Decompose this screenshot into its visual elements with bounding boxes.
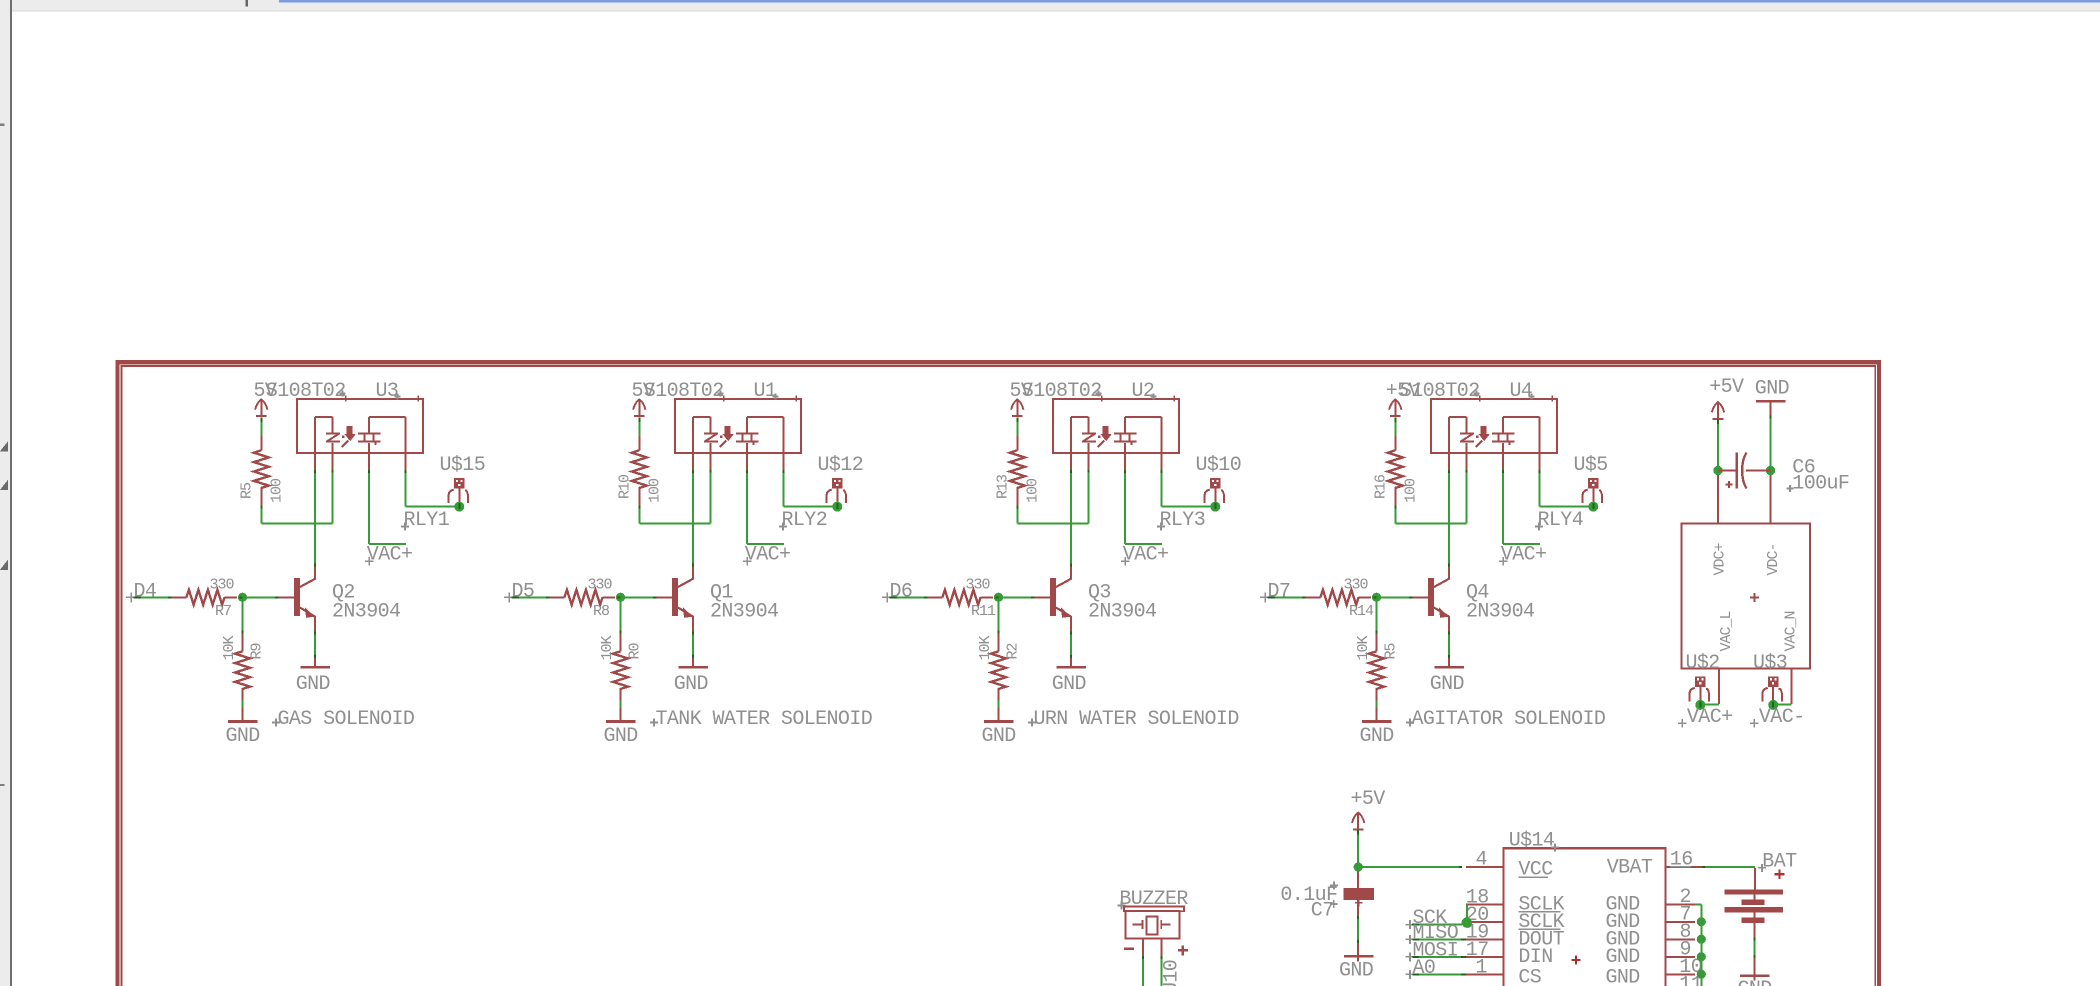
svg-text:10K: 10K [977,635,994,660]
svg-text:AGITATOR SOLENOID: AGITATOR SOLENOID [1412,708,1606,731]
ground symbol under R2 [982,722,1016,749]
wire battery to ground [1754,938,1756,981]
svg-text:U$15: U$15 [440,454,486,477]
wire junction to R2 [998,601,1000,634]
wire SSR pin4 to U$5 [1540,470,1590,506]
net label VAC+ 2 [743,544,790,567]
wire SCK to pin 20 [1412,904,1467,924]
wire junction to base Q3 [999,596,1035,598]
value 2N3904 of Q4 [1466,601,1534,624]
wire R13 to SSR pin2 [1017,469,1088,524]
value 2N3904 of Q2 [332,601,400,624]
transistor Q4 2N3904 [1413,566,1450,632]
pin 1 CS [1466,957,1542,986]
svg-text:D6: D6 [890,581,913,604]
svg-text:VAC_N: VAC_N [1783,611,1800,651]
gutter dash icon fragment 1 [0,124,5,126]
svg-text:R7: R7 [215,603,231,620]
wire collector Q3 to SSR pin1 [1070,470,1072,567]
junction +5V C7 VCC [1354,862,1363,871]
wire buzzer plus to bottom [1161,956,1163,986]
svg-text:R8: R8 [593,603,610,620]
wire emitter Q4 to ground [1448,632,1450,667]
svg-text:VAC_L: VAC_L [1718,610,1735,651]
svg-text:4: 4 [1476,849,1487,872]
gutter triangle icon fragment 3 [0,560,8,570]
caption AGITATOR SOLENOID [1406,708,1605,731]
svg-text:S108T02: S108T02 [1022,380,1102,403]
svg-text:C7: C7 [1311,900,1334,923]
name U$3 [1753,652,1787,675]
resistor R11 330 [928,577,997,621]
wire +5V to R5 [260,417,262,437]
svg-text:100: 100 [1402,478,1419,503]
name U4 [1510,380,1535,403]
wire R10 to SSR pin2 [639,469,710,524]
resistor R5 10K [1355,634,1400,701]
wire +5V to R10 [638,417,640,437]
net label RLY3 [1157,509,1205,532]
top toolbar strip [12,0,2100,12]
pin 11 number [1679,973,1702,986]
buzzer BZ1 [1118,888,1189,986]
svg-text:R5: R5 [239,482,256,499]
wire VAC_N pin to connector U$3 [1778,669,1792,705]
svg-text:TANK WATER SOLENOID: TANK WATER SOLENOID [656,708,873,731]
svg-text:GND: GND [1738,978,1772,986]
pin 17 DIN [1466,939,1553,969]
net label RLY1 [401,509,450,532]
supply +5V block 3 [1010,380,1033,417]
svg-text:BUZZER: BUZZER [1119,888,1188,911]
pin label VDC- [1765,543,1782,575]
wire collector Q4 to SSR pin1 [1448,470,1450,567]
wire GND to C6 junction [1770,416,1772,471]
pin 20 SCLK [1466,904,1565,934]
name U3 [376,380,401,403]
pin label VAC_L [1718,610,1735,651]
svg-text:GND: GND [1052,673,1086,696]
ground symbol under R5 [1360,722,1394,749]
value 2N3904 of Q1 [710,601,778,624]
junction pin7 bus [1697,917,1706,926]
svg-text:VAC+: VAC+ [1501,544,1547,567]
wire junction to U$14 VCC pin [1358,866,1462,868]
svg-text:RLY2: RLY2 [782,509,828,532]
wire junction to R5 [1376,601,1378,634]
svg-text:100: 100 [268,478,285,503]
junction pin8 bus [1697,935,1706,944]
connector U$5 [1574,454,1608,512]
svg-text:D4: D4 [134,581,157,604]
caption URN WATER SOLENOID [1028,708,1239,731]
wire collector Q2 to SSR pin1 [314,470,316,567]
wire D4 to R7 [134,596,172,598]
wire VAC_L pin to connector U$2 [1705,669,1719,705]
svg-text:S108T02: S108T02 [1400,380,1480,403]
ground symbol under R9 [226,722,260,749]
svg-text:100: 100 [646,478,663,503]
pin 19 DOUT [1466,922,1565,952]
wire MOSI to pin 17 [1412,956,1466,958]
supply +5V bottom [1351,788,1386,830]
wire GND bus right of U$14 [1695,904,1701,986]
name Q2 [332,582,355,605]
pin 7 GND [1606,903,1696,934]
pin 16 VBAT [1607,849,1702,880]
svg-text:R16: R16 [1373,474,1390,499]
transistor Q2 2N3904 [279,566,316,632]
wire SSR pin3 to VAC+ label 3 [1125,470,1162,544]
svg-text:R9: R9 [249,643,266,659]
transistor Q1 2N3904 [657,566,694,632]
junction GND C6 [1766,466,1775,475]
svg-text:GND: GND [674,673,708,696]
svg-text:GND: GND [1339,959,1373,982]
wire junction to base Q2 [243,596,279,598]
schematic sheet frame [118,362,1880,986]
connector U$3 symbol [1763,676,1782,710]
resistor R0 10K [599,634,644,701]
svg-text:S108T02: S108T02 [644,380,724,403]
capacitor C7 0.1uF [1280,871,1374,923]
svg-text:100: 100 [1024,478,1041,503]
wire junction to R9 [242,601,244,634]
wire SSR pin3 to VAC+ label 2 [747,470,784,544]
junction base node Q4 [1372,593,1381,602]
svg-text:16: 16 [1670,849,1693,872]
svg-text:+5V: +5V [1709,376,1744,399]
name U1 [754,380,779,403]
wire A0 to pin 1 [1412,973,1466,975]
svg-text:D7: D7 [1268,581,1291,604]
wire emitter Q3 to ground [1070,632,1072,667]
gutter triangle icon fragment 2 [0,480,8,490]
name U$14 [1509,830,1559,853]
solid-state relay U1 S108T02 [675,396,801,470]
svg-text:R10: R10 [617,474,634,499]
svg-text:U4: U4 [1510,380,1533,403]
wire R0 to ground [620,701,622,721]
wire C6 junctions to rectifier module [1718,475,1771,524]
solid-state relay U4 S108T02 [1431,396,1557,470]
net label MOSI [1406,939,1459,962]
pin 10 GND [1606,956,1703,986]
ground symbol right section [1755,378,1789,416]
svg-text:R13: R13 [995,474,1012,499]
svg-text:R5: R5 [1383,642,1400,659]
name Q4 [1466,582,1489,605]
net label D5 [504,581,534,604]
wire R9 to ground [242,701,244,721]
caption GAS SOLENOID [272,708,414,731]
svg-text:URN WATER SOLENOID: URN WATER SOLENOID [1034,708,1239,731]
svg-text:GND: GND [226,725,260,748]
left toolbar gutter [0,0,10,986]
junction pin9 bus [1697,952,1706,961]
pin 8 GND [1606,921,1696,952]
resistor R7 330 [172,577,238,621]
svg-text:RLY4: RLY4 [1538,509,1584,532]
resistor R5 100 [239,436,286,507]
wire D5 to R8 [512,596,550,598]
net label VAC+ 4 [1499,544,1546,567]
svg-text:VAC-: VAC- [1759,706,1805,729]
svg-text:S108T02: S108T02 [266,380,346,403]
pin label VAC_N [1783,611,1800,651]
connector U$10 [1196,454,1242,512]
value 2N3904 of Q3 [1088,601,1156,624]
wire emitter Q1 to ground [692,632,694,667]
pin 9 GND [1606,938,1696,969]
svg-text:VAC+: VAC+ [367,544,413,567]
wire VBAT to battery [1702,866,1755,868]
ground symbol under C7 [1339,955,1374,982]
svg-text:U$12: U$12 [818,454,864,477]
svg-text:1: 1 [1476,957,1488,980]
junction base node Q1 [616,593,625,602]
value S108T02 of U4 [1400,380,1480,403]
svg-text:R2: R2 [1005,643,1022,659]
wire D7 to R14 [1268,596,1306,598]
svg-text:VAC+: VAC+ [1687,706,1733,729]
svg-text:U1: U1 [754,380,777,403]
wire +5V to R13 [1016,417,1018,437]
svg-text:330: 330 [1344,577,1369,594]
ground symbol at Q2 emitter [296,667,330,696]
svg-text:U10: U10 [1160,960,1183,986]
pin 4 VCC [1466,849,1553,882]
solid-state relay U2 S108T02 [1053,396,1179,470]
top toolbar tick [246,0,248,7]
name U$2 [1686,652,1720,675]
svg-text:U$2: U$2 [1686,652,1720,675]
wire SSR pin3 to VAC+ label 1 [369,470,406,544]
capacitor C6 100uF [1718,453,1849,496]
svg-text:U2: U2 [1132,380,1155,403]
svg-text:A0: A0 [1413,957,1436,980]
wire collector Q1 to SSR pin1 [692,470,694,567]
svg-text:RLY1: RLY1 [404,509,450,532]
wire junction to base Q4 [1377,596,1413,598]
resistor R16 100 [1373,436,1420,507]
wire +5V to C6 junction [1717,420,1719,471]
svg-text:GND: GND [1430,673,1464,696]
svg-text:2N3904: 2N3904 [1466,601,1534,624]
wire R5 to SSR pin2 [261,469,332,524]
ground symbol under R0 [604,722,638,749]
net label D4 [126,581,156,604]
net label VAC+ 1 [365,544,412,567]
svg-text:R14: R14 [1349,603,1374,620]
wire R2 to ground [998,701,1000,721]
ground symbol at Q3 emitter [1052,667,1086,696]
caption TANK WATER SOLENOID [650,708,872,731]
name Q3 [1088,582,1111,605]
ground symbol at Q1 emitter [674,667,708,696]
svg-text:U3: U3 [376,380,399,403]
battery BAT [1724,850,1797,937]
wire MISO to pin 19 [1412,938,1466,940]
pin 18 SCLK [1466,887,1565,917]
svg-text:330: 330 [588,577,613,594]
net label VAC- right [1750,706,1804,729]
net label VAC+ 3 [1121,544,1168,567]
value S108T02 of U3 [266,380,346,403]
svg-text:GND: GND [1606,966,1640,986]
resistor R8 330 [550,577,616,621]
net label SCK [1406,907,1448,930]
name Q1 [710,582,733,605]
svg-text:GAS SOLENOID: GAS SOLENOID [278,708,415,731]
pin label VDC+ [1712,542,1729,575]
svg-text:U$10: U$10 [1196,454,1242,477]
junction SCK pin20 [1462,917,1472,927]
rectifier module U$2/U$3 box [1682,524,1811,669]
svg-text:GND: GND [1755,378,1789,401]
svg-text:R11: R11 [971,603,996,620]
net label RLY4 [1535,509,1583,532]
svg-text:100uF: 100uF [1792,473,1849,496]
svg-text:GND: GND [604,725,638,748]
top blue selection bar [279,0,2100,3]
wire D6 to R11 [890,596,928,598]
resistor R14 330 [1306,577,1375,621]
net label MISO [1406,922,1459,945]
junction pin10 bus [1697,970,1706,979]
svg-text:GND: GND [1360,725,1394,748]
IC U$14 box [1504,848,1666,986]
wire junction to base Q1 [621,596,657,598]
svg-text:U$3: U$3 [1753,652,1787,675]
svg-text:R0: R0 [627,642,644,659]
svg-text:330: 330 [966,577,991,594]
resistor R9 10K [221,634,266,701]
gutter dash icon fragment 2 [0,784,5,786]
svg-text:VAC+: VAC+ [1123,544,1169,567]
wire C7 to ground [1357,916,1359,955]
value S108T02 of U2 [1022,380,1102,403]
svg-text:10K: 10K [1355,635,1372,660]
svg-text:U$5: U$5 [1574,454,1608,477]
svg-text:2N3904: 2N3904 [1088,601,1156,624]
svg-text:330: 330 [210,577,235,594]
wire R5 to ground [1376,701,1378,721]
wire SSR pin3 to VAC+ label 4 [1503,470,1540,544]
junction +5V C6 [1713,466,1722,475]
supply +5V block 2 [632,380,655,417]
wire emitter Q2 to ground [314,632,316,667]
junction base node Q2 [238,593,247,602]
svg-text:10K: 10K [599,635,616,660]
svg-text:10K: 10K [221,635,238,660]
connector U$2 symbol [1690,676,1709,710]
svg-text:2N3904: 2N3904 [710,601,778,624]
wire SSR pin4 to U$15 [406,470,456,506]
net label D7 [1260,581,1290,604]
wire junction to R0 [620,601,622,634]
gutter triangle icon fragment 1 [0,441,8,451]
connector U$12 [818,454,864,512]
supply +5V right section [1709,376,1744,419]
svg-text:VBAT: VBAT [1607,857,1653,880]
svg-text:VCC: VCC [1518,859,1553,882]
wire SSR pin4 to U$12 [784,470,834,506]
ground symbol at Q4 emitter [1430,667,1464,696]
svg-text:2N3904: 2N3904 [332,601,400,624]
wire +5V bottom to junction [1357,830,1359,867]
resistor R10 100 [617,436,664,507]
net label VAC+ right [1678,706,1732,729]
solid-state relay U3 S108T02 [297,396,423,470]
wire R16 to SSR pin2 [1395,469,1466,524]
junction base node Q3 [994,593,1003,602]
net label D6 [882,581,912,604]
svg-text:VAC+: VAC+ [745,544,791,567]
svg-text:RLY3: RLY3 [1160,509,1206,532]
wire SSR pin4 to U$10 [1162,470,1212,506]
net label A0 [1406,957,1436,980]
value S108T02 of U1 [644,380,724,403]
wire buzzer minus to bottom [1142,956,1144,986]
wire +5V to R16 [1394,417,1396,437]
resistor R13 100 [995,436,1042,507]
svg-text:+5V: +5V [1351,788,1386,811]
svg-text:U$14: U$14 [1509,830,1555,853]
transistor Q3 2N3904 [1035,566,1072,632]
svg-text:GND: GND [296,673,330,696]
svg-text:GND: GND [982,725,1016,748]
supply +5V block 1 [254,380,277,417]
name U2 [1132,380,1157,403]
ground symbol under battery [1738,976,1772,986]
connector U$15 [440,454,486,512]
svg-text:CS: CS [1518,966,1541,986]
supply +5V block 4 [1386,380,1421,417]
left gutter separator line [10,0,12,986]
svg-text:VDC-: VDC- [1765,543,1782,575]
svg-text:D5: D5 [512,581,535,604]
pin 2 GND [1606,886,1696,917]
net label RLY2 [779,509,827,532]
svg-text:VDC+: VDC+ [1712,542,1729,575]
resistor R2 10K [977,634,1022,701]
